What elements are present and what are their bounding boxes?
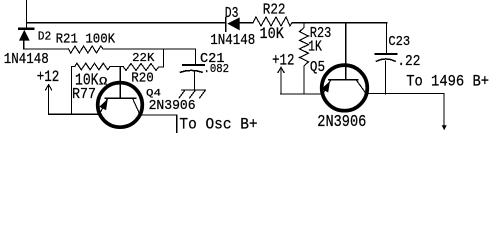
svg-text:D2: D2 bbox=[38, 29, 52, 43]
svg-text:Q4: Q4 bbox=[146, 88, 161, 100]
svg-text:.22: .22 bbox=[397, 54, 420, 70]
svg-text:2N3906: 2N3906 bbox=[317, 113, 366, 131]
svg-text:1K: 1K bbox=[308, 39, 322, 55]
svg-text:22K: 22K bbox=[132, 51, 155, 65]
svg-text:R77: R77 bbox=[72, 86, 96, 103]
svg-text:10K: 10K bbox=[260, 25, 285, 43]
svg-text:+12: +12 bbox=[37, 68, 60, 86]
svg-text:1N4148: 1N4148 bbox=[210, 33, 255, 49]
svg-text:R20: R20 bbox=[131, 71, 154, 86]
svg-text:R22: R22 bbox=[263, 3, 286, 19]
svg-text:R21 100K: R21 100K bbox=[56, 31, 116, 47]
svg-text:To Osc B+: To Osc B+ bbox=[179, 115, 257, 133]
svg-text:Q5: Q5 bbox=[310, 60, 325, 76]
svg-text:C23: C23 bbox=[388, 34, 410, 50]
svg-text:2N3906: 2N3906 bbox=[149, 99, 196, 114]
svg-text:+12: +12 bbox=[272, 52, 294, 70]
svg-text:.082: .082 bbox=[204, 62, 230, 76]
svg-text:Ω: Ω bbox=[99, 77, 107, 89]
svg-text:To 1496 B+: To 1496 B+ bbox=[406, 73, 489, 91]
svg-text:D3: D3 bbox=[225, 6, 239, 22]
svg-text:1N4148: 1N4148 bbox=[4, 52, 49, 68]
